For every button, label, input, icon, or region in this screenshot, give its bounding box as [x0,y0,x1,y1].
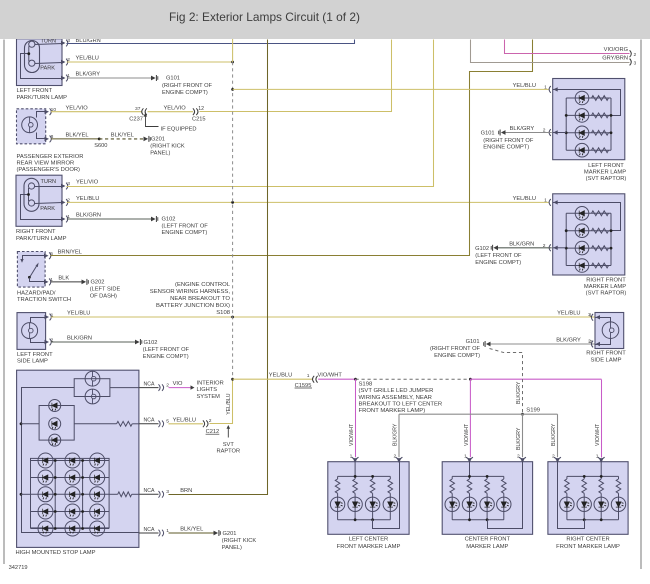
splice on S108 bus at lamp3 YEL/BLU [231,201,234,204]
svg-text:ENGINE COMPT): ENGINE COMPT) [475,260,521,266]
left side lamp internal wiring [31,318,46,323]
svg-text:2: 2 [543,128,546,134]
junction YEL/BLU riser [231,378,234,381]
wire BLK/GRY drop to center marker pin2 [522,414,524,457]
svg-text:2: 2 [209,418,212,424]
wire YEL/BLU bus to left front marker pin1 [233,88,549,90]
bus junction sec2 feed [20,422,23,425]
svg-text:PARK: PARK [40,66,55,72]
svg-text:VIO/WHT: VIO/WHT [464,423,470,446]
wire YEL/VIO between C237 and C215 [148,111,194,113]
svg-text:YEL/BLU: YEL/BLU [513,83,536,89]
ground G201 (stop lamp) [214,531,219,536]
svg-text:BATTERY JUNCTION BOX): BATTERY JUNCTION BOX) [156,303,230,309]
svg-text:1: 1 [464,454,467,460]
lamp: CENTER FRONT MARKER LAMP [442,462,532,535]
lamp1 pin 3 [61,41,66,45]
splice marker feed [231,88,234,91]
svg-text:PARK/TURN LAMP: PARK/TURN LAMP [16,236,67,242]
stop lamp pin NCA 1 [139,532,159,534]
ground G102 (side lamp L) [135,340,140,345]
svg-text:RIGHT FRONT: RIGHT FRONT [586,351,626,357]
header bar redraw (clips overflow) [0,0,650,39]
svg-text:1: 1 [588,312,591,318]
svg-text:BLK/GRY: BLK/GRY [510,126,535,132]
svg-text:HIGH MOUNTED STOP LAMP: HIGH MOUNTED STOP LAMP [16,550,96,556]
hazard pin 1 [44,280,49,284]
lamp3 pin 1 [61,217,66,221]
svg-text:1: 1 [350,454,353,460]
svg-text:TURN: TURN [41,179,57,185]
stop lamp pin NCA 5 [139,423,159,425]
svg-text:G102: G102 [162,216,176,222]
svg-text:RIGHT FRONT: RIGHT FRONT [16,229,56,235]
connector C215 [193,108,198,115]
YEL/BLU stub from top [232,39,234,62]
svg-text:RIGHT FRONT: RIGHT FRONT [586,277,626,283]
svg-text:(SVT RAPTOR): (SVT RAPTOR) [586,291,627,297]
lamp3 internal wiring [35,186,63,188]
marker lamp internal wiring [553,203,621,231]
lamp1 pin 2 [61,60,66,64]
svg-text:G102: G102 [475,246,489,252]
connector C1595 [313,376,318,383]
svg-text:PASSENGER EXTERIOR: PASSENGER EXTERIOR [17,154,84,160]
svg-text:S199: S199 [526,408,540,414]
marker lamp pin 1 [549,86,551,93]
svg-text:(LEFT FRONT OF: (LEFT FRONT OF [475,253,522,259]
side lamp R pin 2 [591,341,593,348]
svg-text:MARKER LAMP: MARKER LAMP [584,170,626,176]
svg-text:BLU/GRN: BLU/GRN [76,38,101,44]
connector C212 [203,420,208,427]
svg-text:1: 1 [544,197,547,203]
lamp3 common junction [27,193,30,196]
svg-text:Fig 2: Exterior Lamps Circuit: Fig 2: Exterior Lamps Circuit (1 of 2) [169,10,360,24]
svg-text:CENTER FRONT: CENTER FRONT [465,536,511,542]
ground G202 [82,280,87,285]
stop lamp left bus [22,388,140,533]
dashed BLK/GRY from G101 down to S199 [490,349,523,415]
mirror pin 8 [45,137,50,141]
svg-text:BLK/GRN: BLK/GRN [67,336,92,342]
svg-text:FRONT MARKER LAMP): FRONT MARKER LAMP) [359,408,426,414]
svg-text:PANEL): PANEL) [222,545,242,551]
wire VIO/WHT C1595 to S198 [318,378,355,380]
splice VIO/WHT [469,378,472,381]
wire VIO/WHT drop to right center marker [601,380,603,458]
svg-text:REAR VIEW MIRROR: REAR VIEW MIRROR [17,161,75,167]
svg-text:G102: G102 [144,340,158,346]
svg-text:NCA: NCA [144,488,155,494]
wire YEL/BLU side lamps feed [51,316,596,318]
svg-text:SIDE LAMP: SIDE LAMP [17,359,48,365]
svg-text:(RIGHT KICK: (RIGHT KICK [222,538,257,544]
marker lamp pin 1 [549,199,551,206]
connector C237 [142,108,147,115]
side lamp L pin 1 [45,315,50,319]
lamp: PASSENGER EXTERIOR REAR VIEW MIRROR [17,109,46,144]
svg-text:BLK/GRN: BLK/GRN [509,242,534,248]
svg-text:WIRING ASSEMBLY, NEAR: WIRING ASSEMBLY, NEAR [359,395,432,401]
svg-text:BLK/GRY: BLK/GRY [516,427,522,450]
svg-text:(LEFT FRONT OF: (LEFT FRONT OF [162,223,209,229]
svg-text:GRY/BRN: GRY/BRN [602,55,628,61]
pin 2 [396,457,403,459]
svg-text:37: 37 [135,106,141,112]
svg-text:MARKER LAMP: MARKER LAMP [584,284,626,290]
svg-text:ENGINE COMPT): ENGINE COMPT) [483,145,529,151]
side lamp R pin 1 [591,314,593,321]
wire BLK hazard pin1 to G202 [51,281,82,283]
svg-text:(PASSENGER'S DOOR): (PASSENGER'S DOOR) [17,167,81,173]
svg-text:IF EQUIPPED: IF EQUIPPED [161,126,197,132]
stop lamp pin NCA 3 [139,493,159,495]
svg-text:FRONT MARKER LAMP: FRONT MARKER LAMP [337,544,401,550]
splice S199 [521,413,524,416]
wire YEL/BLU to C1595 [233,378,313,380]
left page border [3,40,5,565]
svg-text:LEFT CENTER: LEFT CENTER [349,536,389,542]
stop lamp pin NCA 2 [139,387,159,389]
svg-text:PANEL): PANEL) [150,151,170,157]
dual filament bulb (lamp3) [24,178,39,211]
svg-text:G201: G201 [151,137,165,143]
splice S198 [354,378,357,381]
right side lamp bulb [602,322,619,339]
svg-text:(RIGHT KICK: (RIGHT KICK [150,144,185,150]
wire YEL/VIO mirror pin10 to C237 [51,111,142,113]
svg-text:RAPTOR: RAPTOR [216,449,240,455]
dashed wire BLK/YEL S600 to G201 [99,138,143,140]
svg-text:1: 1 [544,84,547,90]
svg-text:TURN: TURN [41,39,57,45]
svg-text:YEL/BLU: YEL/BLU [76,56,99,62]
marker internal wiring [452,475,504,477]
bus junction grid feed [20,493,23,496]
svg-text:YEL/VIO: YEL/VIO [164,105,187,111]
lamp: RIGHT FRONT SIDE LAMP [595,313,624,349]
wire YEL/BLU lamp3 pin2 to right front marker lamp [67,201,549,203]
side lamp L pin 2 [45,340,50,344]
lamp1 common junction [27,52,30,55]
svg-text:PARK: PARK [40,206,55,212]
hazard switch symbol [23,256,46,260]
svg-text:BLK/YEL: BLK/YEL [66,133,89,139]
svg-text:YEL/BLU: YEL/BLU [226,393,232,415]
svg-text:VIO/ORG: VIO/ORG [604,47,628,53]
lamp1 internal wiring [35,44,63,45]
svg-text:YEL/BLU: YEL/BLU [269,373,292,379]
wire VIO/ORG to right edge pin 2 [505,40,630,54]
dashed VIO/WHT jumper S198 to splice [356,378,471,380]
S108 dashed harness bus [232,62,234,379]
wire BLK/GRN marker2 pin2 to G102 [498,247,552,249]
splice S108 on side lamp YEL/BLU [231,316,234,319]
lamp1 pin 1 [61,76,66,80]
BLK/GRY ground bus at S199 [399,413,523,415]
svg-text:BLK/GRN: BLK/GRN [76,213,101,219]
lamp: RIGHT CENTER FRONT MARKER LAMP [548,462,628,535]
svg-text:YEL/BLU: YEL/BLU [67,311,90,317]
svg-text:S600: S600 [94,143,107,149]
wire VIO/WHT drop to left center marker [355,379,357,457]
wire YEL/VIO to top of page [200,40,392,112]
svg-text:G202: G202 [91,280,105,286]
left side lamp bulb [22,323,38,339]
svg-text:NCA: NCA [144,418,155,424]
svg-text:HAZARD/PAD/: HAZARD/PAD/ [17,291,56,297]
svg-text:G101: G101 [481,131,495,137]
marker lamp pin 2 [549,244,551,251]
marker internal wiring [567,475,619,477]
svg-text:RIGHT CENTER: RIGHT CENTER [566,536,609,542]
mirror bulb [22,117,38,133]
svg-text:SENSOR WIRING HARNESS,: SENSOR WIRING HARNESS, [150,289,231,295]
wire YEL/BLU from lamp1 pin2 to S108 bus [67,61,233,63]
splice on S108 bus at lamp1 YEL/BLU [231,61,234,64]
svg-text:VIO/WHT: VIO/WHT [595,423,601,446]
svg-text:LEFT FRONT: LEFT FRONT [588,163,624,169]
svg-text:C215: C215 [192,116,206,122]
switch: HAZARD/PAD/TRACTION SWITCH [17,252,45,288]
svg-text:BLK/YEL: BLK/YEL [111,133,134,139]
ground G101 (marker1) [501,130,506,135]
svg-text:342719: 342719 [9,565,28,571]
svg-text:G101: G101 [166,76,180,82]
marker lamp internal wiring [553,90,621,116]
lamp: LEFT CENTER FRONT MARKER LAMP [328,462,409,535]
svg-text:BLK/YEL: BLK/YEL [180,527,203,533]
pin 2 [519,457,526,459]
svg-text:YEL/BLU: YEL/BLU [173,417,196,423]
ground G101 (right side lamp) [486,342,491,347]
svg-text:BLK/GRY: BLK/GRY [556,337,581,343]
svg-text:(LEFT SIDE: (LEFT SIDE [90,287,121,293]
wire BLK/GRY drop to left center marker pin2 [398,414,400,457]
svg-text:(SVT RAPTOR): (SVT RAPTOR) [586,176,627,182]
svg-text:ENGINE COMPT): ENGINE COMPT) [162,230,208,236]
svg-text:VIO/WHT: VIO/WHT [349,423,355,446]
right side lamp internal wiring [596,318,611,323]
wire bus to sec2 [21,423,39,425]
svg-text:5: 5 [50,251,53,257]
lamp: LEFT FRONT SIDE LAMP [17,313,46,350]
stop lamp LED grid 5x3 [31,458,110,528]
wire GRY/BRN to right edge pin 3 [471,40,630,63]
svg-text:SVT: SVT [223,442,235,448]
pin 1 [598,457,605,459]
svg-text:PARK/TURN LAMP: PARK/TURN LAMP [17,95,68,101]
lamp: RIGHT FRONT MARKER LAMP (SVT RAPTOR) [553,194,625,275]
svg-text:G101: G101 [466,339,480,345]
svg-text:YEL/VIO: YEL/VIO [66,105,89,111]
svg-text:INTERIOR: INTERIOR [197,380,224,386]
svg-text:G201: G201 [223,531,237,537]
splice S600 [98,138,101,141]
SVT RAPTOR callout [227,427,229,437]
svg-text:YEL/BLU: YEL/BLU [557,311,580,317]
svg-text:(SVT GRILLE LED JUMPER: (SVT GRILLE LED JUMPER [359,388,434,394]
pin 1 [466,457,473,459]
stop lamp 3-LED column section [39,406,74,441]
svg-text:2: 2 [517,454,520,460]
svg-text:SYSTEM: SYSTEM [197,394,221,400]
svg-text:YEL/VIO: YEL/VIO [76,180,99,186]
mirror pin 10 [45,110,50,114]
svg-text:BRN/YEL: BRN/YEL [58,249,82,255]
wire YEL/BLU C212 up to junction [210,380,233,424]
wire BLK/GRY from lamp1 pin1 to G101 [67,77,151,79]
lamp: LEFT FRONT MARKER LAMP (SVT RAPTOR) [553,79,625,160]
svg-text:BLK/GRY: BLK/GRY [551,423,557,446]
svg-text:NCA: NCA [144,527,155,533]
wire BRN stop lamp to top of page [169,40,268,495]
wire BLK/GRN lamp3 pin1 to G102 [67,218,151,220]
svg-text:1: 1 [596,454,599,460]
svg-text:(RIGHT FRONT OF: (RIGHT FRONT OF [162,83,213,89]
svg-text:BLK: BLK [58,276,69,282]
svg-text:(LEFT FRONT OF: (LEFT FRONT OF [143,347,190,353]
svg-text:VIO: VIO [173,381,183,387]
svg-text:ENGINE COMPT): ENGINE COMPT) [143,354,189,360]
svg-text:BLK/GRY: BLK/GRY [76,72,101,78]
lamp: HIGH MOUNTED STOP LAMP [17,370,139,547]
wire BLU/GRN from lamp1 pin3 [67,40,355,44]
wire BLK/GRY right side lamp to G101 [491,343,597,345]
lamp: LEFT FRONT PARK/TURN LAMP [17,39,63,86]
marker internal wiring [338,475,391,477]
svg-text:12: 12 [198,106,204,112]
svg-text:MARKER LAMP: MARKER LAMP [466,544,508,550]
lamp: RIGHT FRONT PARK/TURN LAMP [16,175,62,226]
svg-text:S198: S198 [359,382,373,388]
svg-text:(RIGHT FRONT OF: (RIGHT FRONT OF [483,138,534,144]
svg-text:1: 1 [307,373,310,379]
pin 1 [352,457,359,459]
wire VIO/WHT drop to center marker [469,379,471,457]
svg-text:2: 2 [543,243,546,249]
svg-text:ENGINE COMPT): ENGINE COMPT) [162,90,208,96]
svg-text:LEFT FRONT: LEFT FRONT [17,88,53,94]
marker lamp pin 2 [549,129,551,136]
hazard pin 5 [44,254,49,258]
svg-text:OF DASH): OF DASH) [90,293,117,299]
IF EQUIPPED callout [146,116,159,127]
stop lamp twin bulbs section [74,379,110,397]
lamp3 pin 3 [61,184,66,188]
svg-text:BLK/GRY: BLK/GRY [393,423,399,446]
svg-text:C237: C237 [129,116,143,122]
svg-text:3: 3 [634,61,637,67]
wire BLK/GRY drop to right center marker pin2 [557,414,559,457]
svg-text:2: 2 [589,339,592,345]
mirror internal wiring [37,112,46,118]
svg-text:NEAR BREAKOUT TO: NEAR BREAKOUT TO [170,296,230,302]
svg-text:BRN: BRN [180,488,192,494]
wire BLK/YEL mirror pin8 to S600 [51,138,99,140]
svg-text:BLK/GRY: BLK/GRY [516,381,522,404]
wire sec2 to resistor [74,423,116,425]
svg-text:LIGHTS: LIGHTS [197,387,218,393]
ground G102 (lamp3) [151,217,156,222]
wire BLK/GRN side lamp L to G102 [51,341,135,343]
svg-text:YEL/BLU: YEL/BLU [513,196,536,202]
wire BLK/GRY marker1 pin2 to G101 [506,132,552,134]
svg-text:YEL/BLU: YEL/BLU [76,196,99,202]
wire bus to grid [21,493,31,495]
svg-text:2: 2 [552,454,555,460]
wire VIO/WHT splice to right drop [470,378,601,380]
wire YEL/BLU stop lamp to C212 [169,423,204,425]
svg-text:FRONT MARKER LAMP: FRONT MARKER LAMP [556,544,620,550]
ground G102 (marker2) [493,245,498,250]
svg-text:VIO/WHT: VIO/WHT [318,373,343,379]
switch contact [28,276,31,279]
wire sec1 to pin NCA2 [110,387,139,389]
svg-text:TRACTION SWITCH: TRACTION SWITCH [17,297,71,303]
svg-text:LEFT FRONT: LEFT FRONT [17,352,53,358]
wire VIO to interior lights system [169,387,191,389]
title header bar [0,0,650,39]
svg-text:(RIGHT FRONT OF: (RIGHT FRONT OF [430,346,481,352]
right page border [640,40,642,570]
dual filament bulb (lamp1) [25,41,40,73]
svg-text:SIDE LAMP: SIDE LAMP [591,358,622,364]
ground G101 (lamp1) [151,76,156,81]
wire BRN/YEL hazard pin5 routed to top of page [51,40,533,256]
svg-text:2: 2 [394,454,397,460]
lamp3 pin 2 [61,200,66,204]
wire BLK/YEL stop lamp to G201 [169,532,214,534]
wire YEL/VIO from lamp3 pin3 to top [67,40,434,187]
pin 2 [554,457,561,459]
svg-text:S108: S108 [216,310,230,316]
svg-text:(ENGINE CONTROL: (ENGINE CONTROL [175,282,231,288]
wire grid to resistor [109,493,118,495]
svg-text:BREAKOUT TO LEFT CENTER: BREAKOUT TO LEFT CENTER [359,401,443,407]
ground G201 (mirror) [144,137,149,142]
svg-text:NCA: NCA [144,381,155,387]
svg-text:ENGINE COMPT): ENGINE COMPT) [434,353,480,359]
svg-text:2: 2 [634,52,637,58]
